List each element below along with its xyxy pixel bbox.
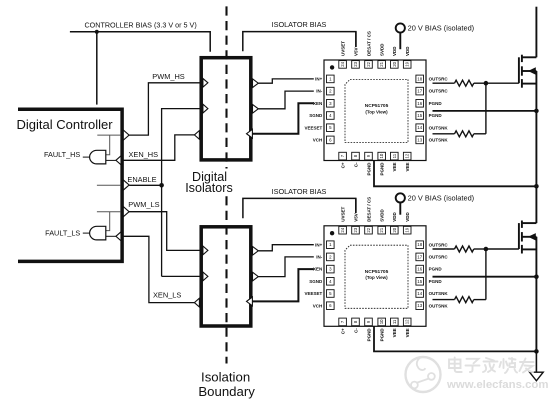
- svg-text:20 V BIAS (isolated): 20 V BIAS (isolated): [408, 194, 475, 203]
- svg-text:22: 22: [366, 61, 371, 66]
- U2 pin 3 (XEN): [327, 265, 335, 273]
- wire PWM_LS: [129, 212, 200, 251]
- svg-text:C+: C+: [340, 162, 345, 168]
- U1 pin 1 (IN+): [327, 75, 335, 83]
- wire PWM_HS: [129, 83, 200, 135]
- svg-text:16: 16: [417, 101, 422, 106]
- wire FAULT_HS gate to PWM_HS stub: [106, 135, 110, 155]
- wire ISOLATOR BIAS rail LS: [243, 198, 356, 218]
- wire isolator2 to IN-: [258, 257, 314, 277]
- buffer ENABLE output: [123, 180, 129, 190]
- wire OUTSRC to gate node: [474, 248, 486, 250]
- wire ENABLE internal stub: [97, 184, 121, 186]
- supply 20V bias bubble 2: [396, 193, 405, 202]
- svg-text:SVDD: SVDD: [380, 43, 385, 56]
- svg-text:V5V: V5V: [353, 47, 358, 56]
- U1 pin 2 (IN-): [327, 87, 335, 95]
- svg-text:XEN_HS: XEN_HS: [129, 150, 159, 159]
- wire XEN_HS: [121, 135, 194, 160]
- transistor Q1 source stub: [522, 83, 537, 85]
- U1 pin 14 (OUTSNK): [416, 124, 424, 132]
- U1 pin 17 (OUTSRC): [416, 87, 424, 95]
- svg-text:ISOLATOR BIAS: ISOLATOR BIAS: [272, 20, 327, 29]
- U2 pin 15 (PGND): [416, 278, 424, 286]
- buffer PWM_LS output: [123, 207, 129, 217]
- svg-text:VDD: VDD: [405, 212, 410, 222]
- wire V5V drop: [355, 198, 357, 213]
- wire PWM_LS internal stub: [97, 211, 121, 213]
- U2 pin 24 (UVSET): [339, 226, 347, 234]
- svg-text:10: 10: [379, 153, 384, 158]
- wire OUTSNK to vertical: [474, 133, 486, 135]
- wire Q1 drain up to DC bus: [535, 7, 537, 58]
- svg-text:VEE: VEE: [392, 328, 397, 337]
- ground symbol: [530, 372, 544, 381]
- buffer isolator2 XEN out left: [194, 298, 199, 307]
- buffer XEN_HS input: [116, 156, 121, 165]
- U2 pin 13 (OUTSNK): [416, 302, 424, 310]
- transistor Q1 drain stub: [522, 56, 537, 58]
- svg-text:C-: C-: [353, 328, 358, 333]
- wire FAULT_HS: [83, 156, 90, 158]
- U2 pin 18 (OUTSRC): [416, 241, 424, 249]
- U2 exposed pad: [345, 245, 408, 308]
- transistor Q2 body arrow: [528, 233, 536, 240]
- wire Q1 source rail down to Q2 drain: [535, 71, 537, 223]
- U2 pin 19 (VDD): [403, 226, 411, 234]
- svg-text:ENABLE: ENABLE: [127, 175, 156, 184]
- svg-text:VEE: VEE: [405, 163, 410, 172]
- svg-text:www.elecfans.com: www.elecfans.com: [446, 379, 549, 391]
- svg-text:23: 23: [353, 61, 358, 66]
- buffer PWM_HS output: [123, 130, 129, 140]
- U2 pin 6 (VCH): [327, 302, 335, 310]
- svg-text:19: 19: [405, 227, 410, 232]
- junction ground node: [534, 349, 539, 354]
- wire PWM_HS internal stub: [97, 134, 121, 136]
- resistor R4 gate sink: [455, 297, 474, 303]
- U2 pin 5 (VEESET): [327, 290, 335, 298]
- svg-text:18: 18: [417, 242, 422, 247]
- svg-text:24: 24: [340, 61, 345, 66]
- buffer isolator1 input A: [203, 78, 208, 87]
- U2 pin 14 (OUTSNK): [416, 290, 424, 298]
- U1 pin 24 (UVSET): [339, 61, 347, 69]
- U2 pin 8 (C-): [352, 318, 360, 326]
- svg-text:VEESET: VEESET: [305, 291, 323, 296]
- svg-text:OUTSRC: OUTSRC: [429, 77, 449, 82]
- wire XEN to pin 3: [252, 269, 313, 301]
- svg-text:NCP51705: NCP51705: [365, 269, 389, 275]
- wire OUTSNK: [433, 299, 455, 301]
- U2 pin 10 (PGND): [378, 318, 386, 326]
- wire PGND to source rail: [433, 276, 537, 278]
- transistor Q2 channel segments: [521, 221, 523, 228]
- wire isolator1 to IN+: [258, 79, 314, 83]
- wire gate node down to OUTSNK: [485, 83, 487, 134]
- svg-text:22: 22: [366, 227, 371, 232]
- svg-text:PGND: PGND: [380, 328, 385, 342]
- U1 pin 13 (OUTSNK): [416, 136, 424, 144]
- svg-text:Isolators: Isolators: [185, 181, 233, 195]
- buffer isolator1 output B: [253, 104, 259, 113]
- svg-text:15: 15: [417, 113, 422, 118]
- junction ENABLE: [159, 183, 164, 188]
- digital controller U3 box: [18, 109, 122, 261]
- U1 pin 7 (C+): [339, 152, 347, 160]
- svg-text:PGND: PGND: [380, 162, 385, 176]
- svg-text:PGND: PGND: [429, 267, 443, 272]
- U1 pin 4 (SGND): [327, 112, 335, 120]
- svg-text:XEN_LS: XEN_LS: [153, 290, 181, 299]
- svg-text:12: 12: [405, 153, 410, 158]
- svg-text:VEE: VEE: [405, 328, 410, 337]
- U2 pin 22 (DESAT / CS): [365, 226, 373, 234]
- wire XEN_LS: [121, 236, 195, 302]
- transistor Q1 body stub: [522, 70, 537, 72]
- wire V5V drop: [355, 32, 357, 47]
- wire gate node to MOSFET gate: [486, 248, 519, 250]
- svg-text:21: 21: [379, 227, 384, 232]
- wire ISOLATOR BIAS rail HS: [243, 32, 356, 52]
- wire XEN to pin 3: [252, 103, 313, 133]
- wire OUTSNK: [433, 133, 455, 135]
- svg-text:CONTROLLER BIAS (3.3 V or 5 V): CONTROLLER BIAS (3.3 V or 5 V): [84, 21, 196, 30]
- U1 pin 6 (VCH): [327, 136, 335, 144]
- junction controller bias: [95, 30, 99, 34]
- buffer isolator2 input A: [203, 246, 208, 255]
- U1 pin 8 (C-): [352, 152, 360, 160]
- wire gate node down to OUTSNK: [485, 249, 487, 300]
- svg-text:IN+: IN+: [315, 242, 323, 247]
- svg-text:18: 18: [417, 76, 422, 81]
- svg-text:V5V: V5V: [353, 213, 358, 222]
- svg-text:IN+: IN+: [315, 77, 323, 82]
- gate U4 FAULT_HS (mirrored AND): [90, 150, 106, 164]
- digital isolator U2 box: [201, 227, 251, 326]
- U1 pin 15 (PGND): [416, 112, 424, 120]
- resistor R3 gate source: [455, 246, 474, 252]
- svg-text:10: 10: [379, 319, 384, 324]
- U2 pin 21 (SVDD): [378, 226, 386, 234]
- svg-text:(Top View): (Top View): [365, 275, 388, 280]
- transistor Q2 SiC MOSFET gate bar: [518, 223, 520, 249]
- buffer XEN_LS input: [116, 232, 121, 241]
- buffer isolator2 output A: [253, 246, 259, 255]
- label Digital Isolators: [183, 169, 235, 195]
- svg-text:C-: C-: [353, 162, 358, 167]
- svg-text:IN-: IN-: [316, 255, 323, 260]
- U2 pin 20 (VDD): [391, 226, 399, 234]
- svg-text:SGND: SGND: [309, 113, 323, 118]
- buffer isolator2 XEN in right: [247, 297, 253, 306]
- buffer isolator1 XEN out left: [194, 131, 199, 140]
- svg-text:PGND: PGND: [366, 162, 371, 176]
- buffer isolator2 input B: [203, 272, 208, 281]
- transistor Q1 channel segments: [521, 55, 523, 62]
- svg-text:PWM_HS: PWM_HS: [152, 72, 185, 81]
- wire OUTSRC: [433, 248, 455, 250]
- svg-text:ISOLATOR BIAS: ISOLATOR BIAS: [272, 187, 327, 196]
- svg-text:Digital Controller: Digital Controller: [17, 117, 114, 132]
- svg-text:23: 23: [353, 227, 358, 232]
- supply 20V bias bubble 1: [396, 23, 405, 32]
- svg-text:XEN: XEN: [313, 101, 322, 106]
- svg-text:DESAT / CS: DESAT / CS: [366, 31, 371, 56]
- svg-text:13: 13: [417, 137, 422, 142]
- junction PGND rail Q2: [534, 274, 539, 279]
- svg-text:14: 14: [417, 125, 422, 130]
- svg-text:SVDD: SVDD: [380, 209, 385, 222]
- svg-text:VEESET: VEESET: [305, 125, 323, 130]
- U1 pin 11 (VEE): [391, 152, 399, 160]
- svg-text:20: 20: [392, 61, 397, 66]
- svg-text:15: 15: [417, 279, 422, 284]
- wire PGND pin9 to switch rail: [374, 327, 536, 352]
- isolation boundary dashed line: [225, 6, 227, 363]
- svg-text:UVSET: UVSET: [340, 207, 345, 222]
- U1 pin 1 marker dot: [330, 65, 334, 69]
- svg-text:XEN: XEN: [313, 267, 322, 272]
- wire PGND pin9 to switch rail: [374, 161, 536, 187]
- svg-text:PGND: PGND: [429, 101, 443, 106]
- svg-text:VCH: VCH: [313, 303, 323, 308]
- wire controller bias drop to controller: [96, 32, 98, 105]
- svg-text:11: 11: [392, 153, 397, 158]
- wire CONTROLLER BIAS rail: [70, 32, 210, 52]
- svg-text:PWM_LS: PWM_LS: [128, 200, 159, 209]
- wire OUTSRC: [433, 82, 455, 84]
- svg-text:24: 24: [340, 227, 345, 232]
- svg-text:PGND: PGND: [429, 279, 443, 284]
- wire isolator1 to IN-: [258, 91, 314, 109]
- U2 pin 1 marker dot: [330, 231, 334, 235]
- gate U5 FAULT_LS (mirrored AND): [90, 226, 106, 240]
- U2 pin 12 (VEE): [403, 318, 411, 326]
- svg-text:OUTSNK: OUTSNK: [429, 138, 449, 143]
- svg-text:PGND: PGND: [429, 113, 443, 118]
- op-amp U2 NCP51705 gate driver package: [324, 226, 426, 326]
- svg-text:VDD: VDD: [392, 212, 397, 222]
- svg-text:16: 16: [417, 267, 422, 272]
- junction gate node Q2: [484, 247, 489, 252]
- junction gate node Q1: [484, 81, 489, 86]
- wire 20V bias stem 1: [399, 33, 401, 50]
- U2 pin 7 (C+): [339, 318, 347, 326]
- U2 pin 16 (PGND): [416, 265, 424, 273]
- svg-text:OUTSRC: OUTSRC: [429, 242, 449, 247]
- svg-text:13: 13: [417, 303, 422, 308]
- U1 pin 3 (XEN): [327, 100, 335, 108]
- svg-text:OUTSNK: OUTSNK: [429, 125, 449, 130]
- transistor Q1 body arrow: [528, 67, 536, 74]
- transistor Q1 SiC MOSFET gate bar: [518, 57, 520, 83]
- wire gate to XEN_LS triangle: [106, 235, 116, 237]
- U2 pin 2 (IN-): [327, 253, 335, 261]
- svg-text:20: 20: [392, 227, 397, 232]
- resistor R2 gate sink: [455, 131, 474, 137]
- U2 pin 23 (V5V): [352, 226, 360, 234]
- wire FAULT_LS: [83, 232, 90, 234]
- svg-text:IN-: IN-: [316, 89, 323, 94]
- U1 pin 12 (VEE): [403, 152, 411, 160]
- U1 pin 9 (PGND): [365, 152, 373, 160]
- svg-text:(Top View): (Top View): [365, 109, 388, 114]
- svg-text:DESAT / CS: DESAT / CS: [366, 197, 371, 222]
- resistor R1 gate source: [455, 80, 474, 86]
- buffer isolator1 XEN in right: [247, 129, 253, 138]
- svg-text:OUTSRC: OUTSRC: [429, 89, 449, 94]
- wire OUTSNK to vertical: [474, 299, 486, 301]
- svg-text:17: 17: [417, 89, 422, 94]
- U1 exposed pad: [345, 79, 408, 142]
- svg-text:PGND: PGND: [366, 328, 371, 342]
- U1 pin 23 (V5V): [352, 61, 360, 69]
- U1 pin 5 (VEESET): [327, 124, 335, 132]
- wire PGND to source rail: [433, 110, 537, 112]
- U2 pin 17 (OUTSRC): [416, 253, 424, 261]
- svg-text:11: 11: [392, 319, 397, 324]
- wire ENABLE vertical: [129, 109, 199, 277]
- U2 pin 9 (PGND): [365, 318, 373, 326]
- wire Q2 source rail down to ground: [535, 237, 537, 352]
- svg-text:OUTSNK: OUTSNK: [429, 303, 449, 308]
- U1 pin 16 (PGND): [416, 100, 424, 108]
- svg-text:12: 12: [405, 319, 410, 324]
- digital isolator U1 box: [201, 58, 251, 160]
- buffer isolator1 input B: [203, 104, 208, 113]
- wire ground stem: [535, 351, 537, 372]
- wire gate to XEN_HS triangle: [106, 159, 116, 161]
- svg-text:OUTSNK: OUTSNK: [429, 291, 449, 296]
- svg-text:Isolation: Isolation: [201, 370, 250, 385]
- wire isolator2 to IN+: [258, 245, 314, 251]
- transistor Q2 drain stub: [522, 222, 537, 224]
- op-amp U1 NCP51705 gate driver package: [324, 60, 426, 161]
- U2 pin 1 (IN+): [327, 241, 335, 249]
- svg-text:VCH: VCH: [313, 138, 323, 143]
- svg-text:17: 17: [417, 254, 422, 259]
- transistor Q2 source stub: [522, 248, 537, 250]
- U2 pin 4 (SGND): [327, 278, 335, 286]
- svg-text:14: 14: [417, 291, 422, 296]
- svg-text:VDD: VDD: [392, 46, 397, 56]
- buffer isolator2 output B: [253, 272, 259, 281]
- U1 pin 21 (SVDD): [378, 61, 386, 69]
- svg-text:19: 19: [405, 61, 410, 66]
- U1 pin 20 (VDD): [391, 61, 399, 69]
- buffer isolator1 output A: [253, 79, 259, 88]
- wire gate node to MOSFET gate: [486, 82, 519, 84]
- U1 pin 19 (VDD): [403, 61, 411, 69]
- U1 pin 18 (OUTSRC): [416, 75, 424, 83]
- svg-text:VEE: VEE: [392, 163, 397, 172]
- svg-text:VDD: VDD: [405, 46, 410, 56]
- wire FAULT_LS gate to PWM_LS stub: [106, 212, 110, 231]
- transistor Q2 body stub: [522, 236, 537, 238]
- svg-text:21: 21: [379, 61, 384, 66]
- svg-text:FAULT_HS: FAULT_HS: [44, 150, 80, 159]
- svg-text:OUTSRC: OUTSRC: [429, 255, 449, 260]
- wire 20V bias stem 2: [399, 203, 401, 215]
- svg-text:20 V BIAS (isolated): 20 V BIAS (isolated): [408, 24, 475, 33]
- wire OUTSRC to gate node: [474, 82, 486, 84]
- U1 pin 10 (PGND): [378, 152, 386, 160]
- svg-text:C+: C+: [340, 328, 345, 334]
- svg-text:UVSET: UVSET: [340, 41, 345, 56]
- svg-text:NCP51705: NCP51705: [365, 103, 389, 109]
- U1 pin 22 (DESAT / CS): [365, 61, 373, 69]
- watermark chinese text (approximated strokes): [449, 358, 534, 374]
- svg-text:Boundary: Boundary: [198, 384, 255, 399]
- junction PGND rail Q1: [534, 109, 539, 114]
- svg-text:SGND: SGND: [309, 279, 323, 284]
- U2 pin 11 (VEE): [391, 318, 399, 326]
- watermark logo circle: [406, 357, 441, 392]
- junction switch node PGND pin9: [534, 184, 539, 189]
- svg-text:FAULT_LS: FAULT_LS: [45, 229, 80, 238]
